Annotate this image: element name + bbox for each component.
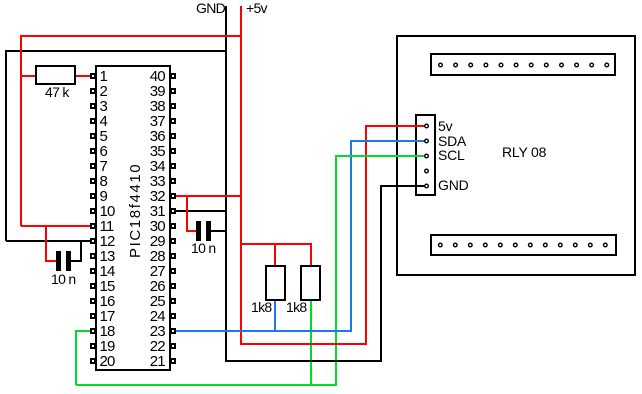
wire +5v stub inside J1 xyxy=(388,125,425,127)
RLY 08 bottom header strip xyxy=(431,235,616,255)
U1 pin 10 pad xyxy=(90,208,95,214)
wire +5v top horizontal xyxy=(20,35,242,37)
svg-text:20: 20 xyxy=(100,353,116,370)
U1 pin 19 pad xyxy=(90,343,95,349)
U1 pin 8 pad xyxy=(90,178,95,184)
svg-text:10 n: 10 n xyxy=(51,271,75,287)
U1 pin 38 pad xyxy=(171,103,176,109)
wire SDA stub inside J1 xyxy=(388,140,425,142)
RLY 08 top header hole 3 xyxy=(469,63,473,67)
wire pin 31 to GND rail xyxy=(176,210,226,212)
svg-text:1k8: 1k8 xyxy=(286,299,307,315)
RLY 08 top header strip xyxy=(431,54,615,75)
svg-text:RLY 08: RLY 08 xyxy=(502,144,547,160)
RLY 08 bottom header hole 4 xyxy=(484,243,488,247)
wire R1 right to pin 1 xyxy=(75,75,90,77)
wire +5v bottom horizontal xyxy=(240,343,366,345)
wire +5v drop to C1 left plate xyxy=(45,225,56,261)
wire SCL into RLY08 SCL pin xyxy=(335,155,415,157)
svg-text:10 n: 10 n xyxy=(191,240,215,256)
wire GND into RLY08 GND pin xyxy=(380,185,415,187)
RLY 08 bottom header hole 1 xyxy=(439,243,443,247)
U1 pin 28 pad xyxy=(171,253,176,259)
wire SCL bottom horizontal xyxy=(76,384,336,386)
J1 pin 5 xyxy=(425,184,429,188)
wire SCL stub inside J1 xyxy=(388,155,425,157)
capacitor C2 10n right plate xyxy=(206,221,211,241)
wire GND left vertical xyxy=(5,51,7,241)
resistor R2 1k8 body xyxy=(266,266,285,300)
RLY 08 top header hole 9 xyxy=(560,63,564,67)
wire R3 bottom to SCL net xyxy=(310,300,312,385)
resistor R3 1k8 body xyxy=(301,266,320,300)
U1 pin 11 pad xyxy=(90,223,95,229)
U1 pin 27 pad xyxy=(171,268,176,274)
RLY 08 top header hole 5 xyxy=(499,63,503,67)
wire C2 right plate to GND rail xyxy=(211,230,226,232)
U1 pin 22 pad xyxy=(171,343,176,349)
RLY 08 top header hole 10 xyxy=(575,63,579,67)
RLY 08 bottom header hole 5 xyxy=(499,243,503,247)
capacitor C1 10n right plate xyxy=(66,251,71,271)
wire +5v riser to RLY08 xyxy=(365,126,367,345)
resistor R1 47k body xyxy=(36,66,75,84)
U1 pin 25 pad xyxy=(171,298,176,304)
U1 pin 35 pad xyxy=(171,148,176,154)
svg-text:5v: 5v xyxy=(438,118,453,134)
svg-text:+5v: +5v xyxy=(246,0,268,16)
J1 pin 3 xyxy=(425,154,429,158)
wire SCL pin 18 stub xyxy=(76,330,90,332)
RLY 08 bottom header hole 2 xyxy=(454,243,458,247)
RLY 08 top header hole 7 xyxy=(529,63,533,67)
wire +5v to pin 11 xyxy=(21,225,90,227)
svg-text:21: 21 xyxy=(150,353,166,370)
wire C1 right plate to pin-12 net xyxy=(71,240,81,262)
U1 pin 20 pad xyxy=(90,358,95,364)
wire SCL riser xyxy=(335,156,337,386)
RLY 08 bottom header hole 8 xyxy=(544,243,548,247)
wire GND rail vertical xyxy=(225,6,227,361)
U1 pin 33 pad xyxy=(171,178,176,184)
U1 pin 12 pad xyxy=(90,238,95,244)
RLY 08 bottom header hole 3 xyxy=(469,243,473,247)
U1 pin 15 pad xyxy=(90,283,95,289)
svg-text:SCL: SCL xyxy=(438,147,465,163)
U1 pin 37 pad xyxy=(171,118,176,124)
U1 pin 39 pad xyxy=(171,88,176,94)
svg-text:1k8: 1k8 xyxy=(251,299,272,315)
wire +5v feed to pull-up resistors xyxy=(241,243,311,245)
wire +5v to R1 left xyxy=(21,75,36,77)
RLY 08 top header hole 11 xyxy=(590,63,594,67)
RLY 08 top header hole 4 xyxy=(484,63,488,67)
U1 pin 6 pad xyxy=(90,148,95,154)
svg-text:PIC18f4410: PIC18f4410 xyxy=(127,163,144,258)
svg-text:GND: GND xyxy=(438,177,469,193)
capacitor C2 10n left plate xyxy=(196,221,201,241)
wire GND stub inside J1 xyxy=(388,185,425,187)
wire SDA riser xyxy=(350,141,352,332)
J1 pin 2 xyxy=(425,139,429,143)
U1 pin 40 pad xyxy=(171,73,176,79)
U1 pin 5 pad xyxy=(90,133,95,139)
IC U1 PIC18f4410 body xyxy=(96,66,170,370)
U1 pin 16 pad xyxy=(90,298,95,304)
U1 pin 34 pad xyxy=(171,163,176,169)
U1 pin 23 pad xyxy=(171,328,176,334)
wire GND top horizontal xyxy=(5,50,226,52)
U1 pin 3 pad xyxy=(90,103,95,109)
U1 pin 24 pad xyxy=(171,313,176,319)
capacitor C1 10n left plate xyxy=(56,251,61,271)
wire +5v into RLY08 5v pin xyxy=(365,125,415,127)
U1 pin 18 pad xyxy=(90,328,95,334)
RLY 08 bottom header hole 9 xyxy=(559,243,563,247)
U1 pin 7 pad xyxy=(90,163,95,169)
U1 pin 13 pad xyxy=(90,253,95,259)
U1 pin 2 pad xyxy=(90,88,95,94)
RLY 08 bottom header hole 11 xyxy=(589,243,593,247)
wire +5v drop to R3 top xyxy=(310,243,312,266)
U1 pin 36 pad xyxy=(171,133,176,139)
RLY 08 top header hole 2 xyxy=(454,63,458,67)
wire GND riser to RLY08 xyxy=(380,186,382,362)
RLY 08 I2C connector J1 xyxy=(416,115,435,195)
wire GND bottom horizontal xyxy=(225,360,381,362)
RLY 08 top header hole 6 xyxy=(514,63,518,67)
wire SDA into RLY08 SDA pin xyxy=(350,140,415,142)
wire +5v left vertical xyxy=(20,36,22,226)
RLY 08 bottom header hole 6 xyxy=(514,243,518,247)
U1 pin 9 pad xyxy=(90,193,95,199)
RLY 08 bottom header hole 12 xyxy=(604,243,608,247)
wire +5v rail vertical xyxy=(240,6,242,344)
svg-text:GND: GND xyxy=(196,0,226,16)
RLY 08 top header hole 1 xyxy=(439,63,443,67)
U1 pin 14 pad xyxy=(90,268,95,274)
RLY 08 bottom header hole 10 xyxy=(574,243,578,247)
U1 pin 31 pad xyxy=(171,208,176,214)
wire +5v drop to C2 left plate xyxy=(186,195,196,231)
wire SDA pin 23 horizontal xyxy=(176,330,351,332)
U1 pin 32 pad xyxy=(171,193,176,199)
wire R2 bottom to SDA net xyxy=(274,300,276,331)
RLY 08 bottom header hole 7 xyxy=(529,243,533,247)
wire +5v drop to R2 top xyxy=(274,243,276,266)
wire pin 32 to +5v rail xyxy=(176,195,241,197)
wire GND to pin 12 xyxy=(6,240,90,242)
U1 pin 29 pad xyxy=(171,238,176,244)
J1 pin 1 xyxy=(425,124,429,128)
U1 pin 1 pad xyxy=(90,73,95,79)
U1 pin 30 pad xyxy=(171,223,176,229)
U1 pin 21 pad xyxy=(171,358,176,364)
U1 pin 17 pad xyxy=(90,313,95,319)
U1 pin 4 pad xyxy=(90,118,95,124)
J1 pin 4 xyxy=(425,169,429,173)
U1 pin 26 pad xyxy=(171,283,176,289)
svg-text:47 k: 47 k xyxy=(45,84,70,100)
wire SCL left vertical xyxy=(75,330,77,385)
RLY 08 top header hole 8 xyxy=(545,63,549,67)
RLY 08 top header hole 12 xyxy=(605,63,609,67)
RLY 08 board outline xyxy=(397,36,635,275)
